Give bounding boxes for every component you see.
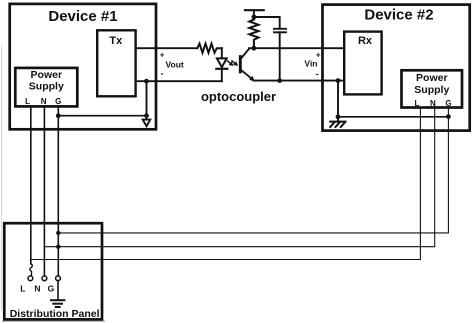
svg-text:-: -: [161, 69, 164, 79]
svg-text:Rx: Rx: [358, 35, 373, 47]
svg-text:Power: Power: [31, 69, 63, 81]
svg-text:N: N: [34, 283, 40, 293]
svg-text:Vin: Vin: [304, 59, 317, 69]
svg-text:Supply: Supply: [414, 84, 449, 96]
svg-text:N: N: [430, 99, 436, 108]
svg-text:optocoupler: optocoupler: [201, 89, 276, 104]
svg-text:Vout: Vout: [166, 59, 184, 69]
svg-text:Device #1: Device #1: [48, 8, 117, 25]
svg-text:Device #2: Device #2: [364, 7, 433, 24]
svg-text:G: G: [445, 99, 451, 108]
svg-text:Power: Power: [416, 72, 448, 84]
svg-text:G: G: [55, 97, 61, 106]
svg-text:Distribution Panel: Distribution Panel: [10, 308, 100, 320]
svg-text:N: N: [41, 97, 47, 106]
svg-text:L: L: [20, 283, 25, 293]
svg-text:+: +: [160, 50, 165, 59]
svg-text:Supply: Supply: [29, 81, 64, 93]
svg-text:-: -: [316, 69, 319, 79]
svg-text:L: L: [25, 97, 30, 106]
svg-text:G: G: [48, 283, 55, 293]
svg-text:Tx: Tx: [109, 35, 123, 47]
svg-text:L: L: [415, 99, 420, 108]
